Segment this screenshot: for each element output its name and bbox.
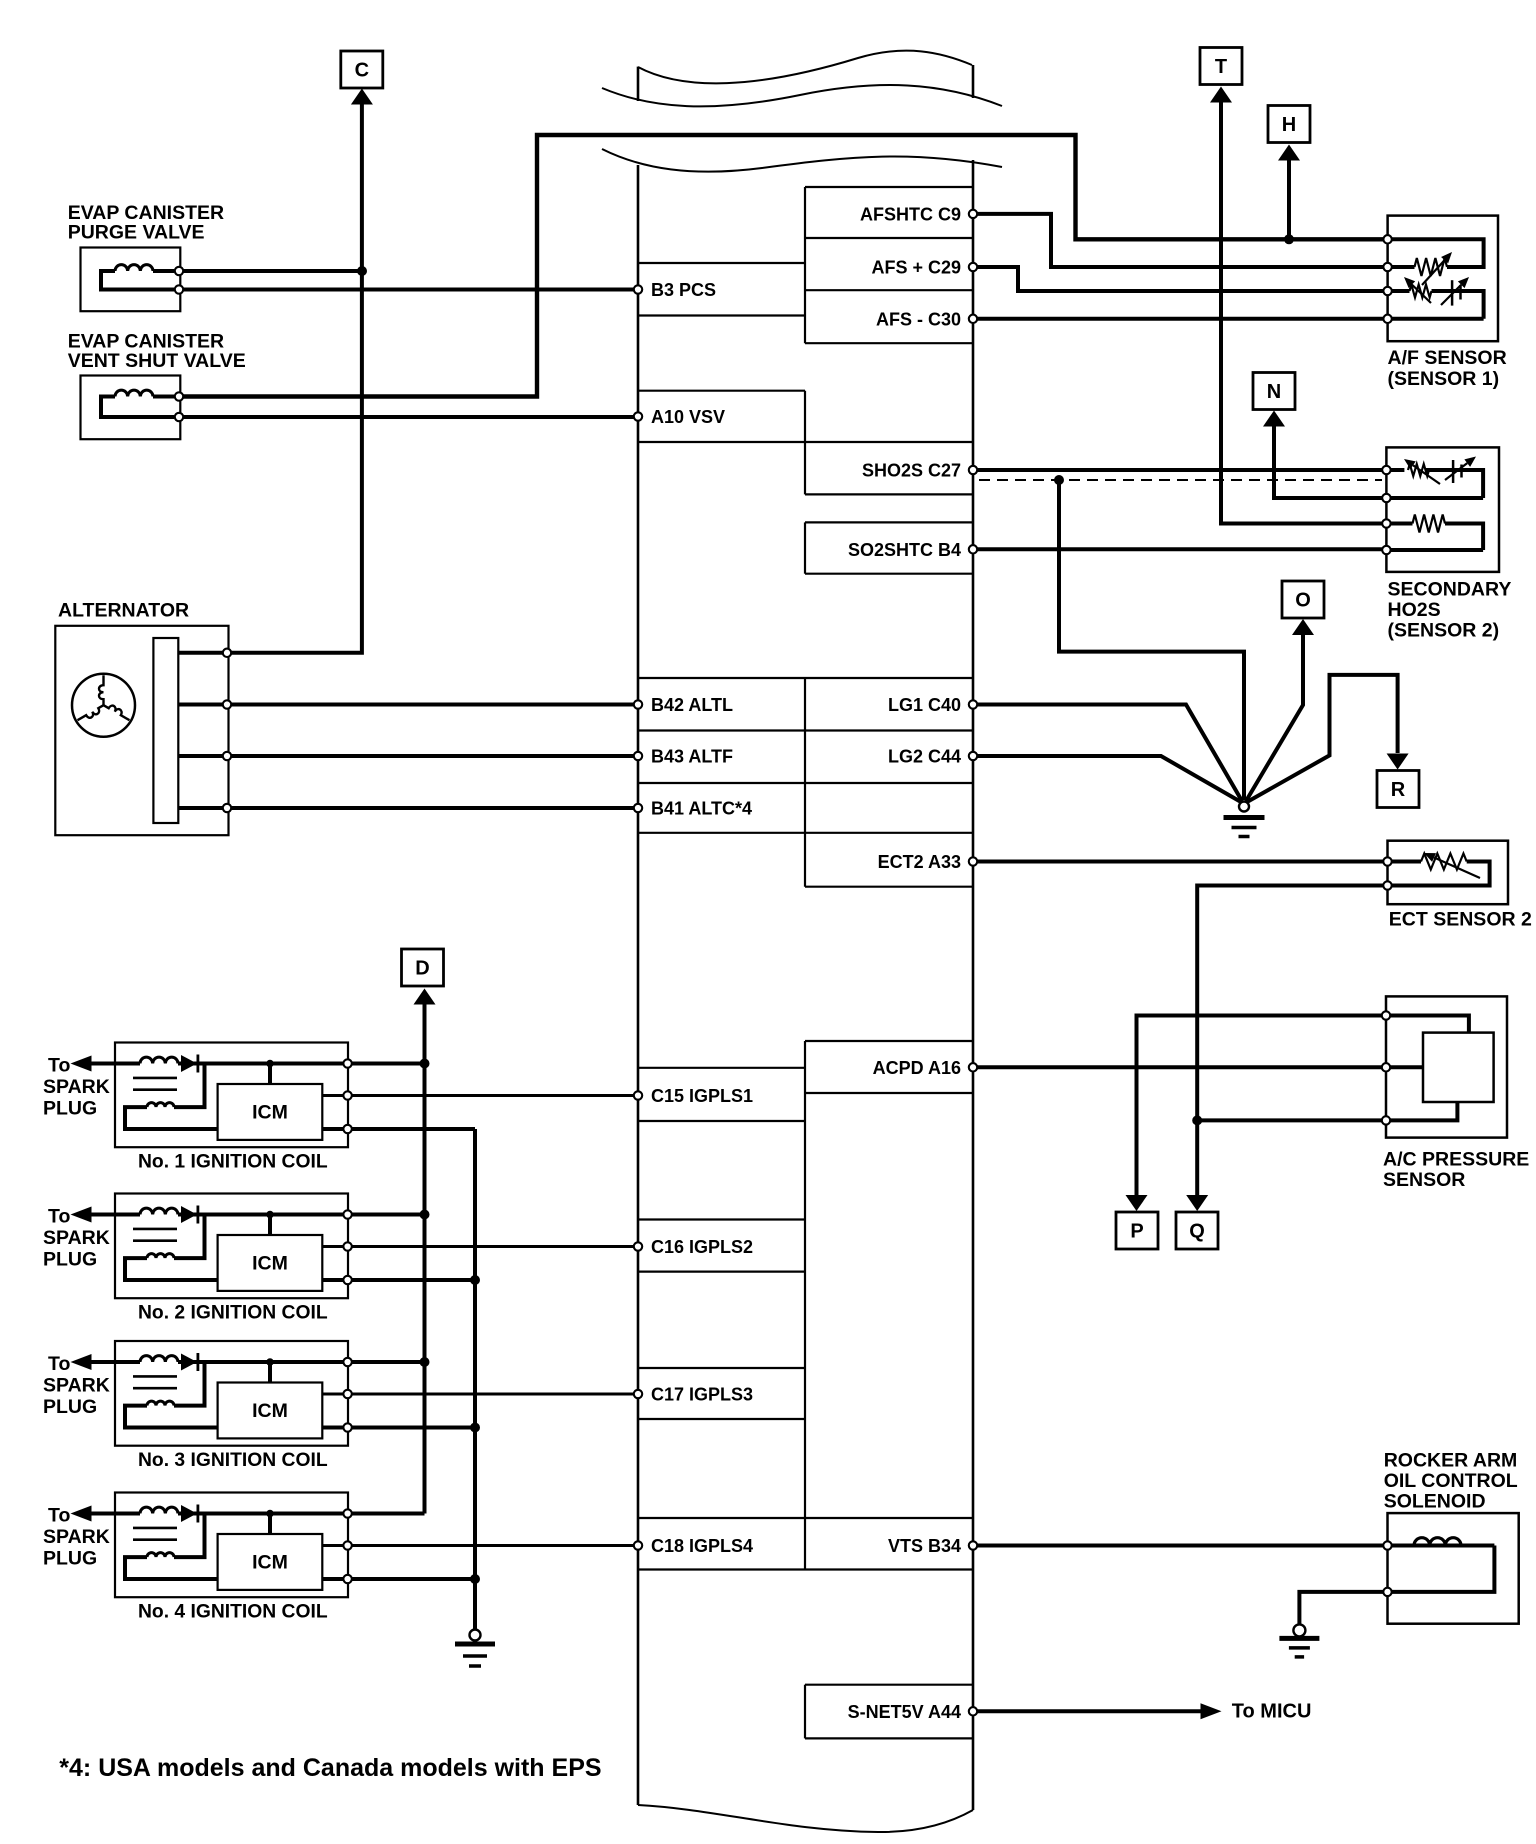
svg-text:OIL CONTROL: OIL CONTROL (1384, 1470, 1518, 1492)
svg-text:No. 4 IGNITION COIL: No. 4 IGNITION COIL (138, 1602, 328, 1623)
svg-text:AFSHTC C9: AFSHTC C9 (860, 204, 961, 224)
svg-text:B42 ALTL: B42 ALTL (651, 695, 733, 715)
svg-text:To: To (48, 1353, 70, 1375)
svg-text:C15 IGPLS1: C15 IGPLS1 (651, 1086, 753, 1106)
svg-text:C16 IGPLS2: C16 IGPLS2 (651, 1237, 753, 1257)
svg-text:Q: Q (1189, 1221, 1205, 1243)
svg-text:SENSOR: SENSOR (1383, 1169, 1465, 1191)
svg-text:No. 2 IGNITION COIL: No. 2 IGNITION COIL (138, 1303, 328, 1324)
svg-text:B3 PCS: B3 PCS (651, 280, 716, 300)
svg-text:VTS B34: VTS B34 (888, 1536, 961, 1556)
svg-text:PLUG: PLUG (43, 1098, 97, 1120)
svg-text:C18 IGPLS4: C18 IGPLS4 (651, 1536, 753, 1556)
svg-text:PLUG: PLUG (43, 1249, 97, 1271)
svg-text:SOLENOID: SOLENOID (1384, 1491, 1486, 1513)
svg-text:T: T (1215, 56, 1227, 78)
svg-text:PLUG: PLUG (43, 1548, 97, 1570)
svg-text:ALTERNATOR: ALTERNATOR (58, 600, 189, 622)
svg-text:SO2SHTC B4: SO2SHTC B4 (848, 540, 961, 560)
svg-text:No. 1 IGNITION COIL: No. 1 IGNITION COIL (138, 1152, 328, 1173)
svg-text:To MICU: To MICU (1232, 1701, 1312, 1723)
svg-text:ECT SENSOR 2: ECT SENSOR 2 (1389, 909, 1532, 931)
svg-text:To: To (48, 1055, 70, 1077)
svg-text:ICM: ICM (252, 1552, 288, 1574)
svg-text:B41 ALTC*4: B41 ALTC*4 (651, 799, 752, 819)
svg-text:SPARK: SPARK (43, 1375, 110, 1397)
svg-text:SPARK: SPARK (43, 1076, 110, 1098)
svg-text:S-NET5V A44: S-NET5V A44 (848, 1702, 961, 1722)
svg-text:O: O (1295, 590, 1311, 612)
svg-text:ICM: ICM (252, 1102, 288, 1124)
svg-text:LG1 C40: LG1 C40 (888, 695, 961, 715)
svg-text:To: To (48, 1505, 70, 1527)
svg-text:VENT SHUT VALVE: VENT SHUT VALVE (68, 350, 246, 372)
svg-text:SPARK: SPARK (43, 1227, 110, 1249)
svg-text:SECONDARY: SECONDARY (1388, 579, 1512, 601)
svg-text:HO2S: HO2S (1388, 599, 1441, 621)
svg-text:SPARK: SPARK (43, 1526, 110, 1548)
svg-text:No. 3 IGNITION COIL: No. 3 IGNITION COIL (138, 1450, 328, 1471)
svg-text:P: P (1130, 1221, 1143, 1243)
svg-text:SHO2S C27: SHO2S C27 (862, 461, 961, 481)
svg-text:PURGE VALVE: PURGE VALVE (68, 221, 205, 243)
svg-text:R: R (1391, 779, 1406, 801)
svg-text:ICM: ICM (252, 1253, 288, 1275)
svg-text:To: To (48, 1206, 70, 1228)
svg-text:AFS + C29: AFS + C29 (871, 258, 961, 278)
svg-text:C17 IGPLS3: C17 IGPLS3 (651, 1385, 753, 1405)
svg-text:(SENSOR 1): (SENSOR 1) (1388, 368, 1500, 390)
svg-text:(SENSOR 2): (SENSOR 2) (1388, 620, 1500, 642)
svg-text:B43 ALTF: B43 ALTF (651, 747, 733, 767)
svg-text:C: C (355, 60, 369, 82)
svg-text:A10 VSV: A10 VSV (651, 407, 725, 427)
svg-text:LG2 C44: LG2 C44 (888, 747, 961, 767)
svg-text:PLUG: PLUG (43, 1396, 97, 1418)
svg-text:H: H (1282, 114, 1296, 136)
svg-text:ECT2 A33: ECT2 A33 (878, 852, 961, 872)
svg-text:A/C PRESSURE: A/C PRESSURE (1383, 1149, 1529, 1171)
svg-text:ACPD A16: ACPD A16 (873, 1058, 961, 1078)
svg-text:N: N (1267, 381, 1281, 403)
svg-text:D: D (415, 958, 429, 980)
svg-text:A/F SENSOR: A/F SENSOR (1388, 347, 1507, 369)
svg-text:*4: USA models and Canada mode: *4: USA models and Canada models with EP… (59, 1754, 601, 1782)
svg-text:ICM: ICM (252, 1400, 288, 1422)
svg-text:AFS - C30: AFS - C30 (876, 309, 961, 329)
svg-text:ROCKER ARM: ROCKER ARM (1384, 1450, 1518, 1472)
